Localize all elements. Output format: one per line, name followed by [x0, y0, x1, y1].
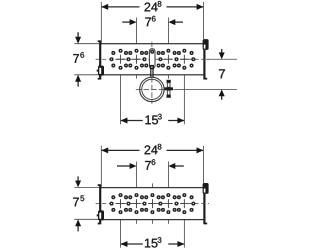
top view: dimension 7.6 arrows — [122, 21, 131, 23]
top view: central slot — [149, 49, 155, 69]
front view: dimension text 24.8 — [145, 145, 158, 154]
top view: left dim 7.6 extension lines — [74, 43, 99, 45]
front view: extension line left edge — [100, 146, 102, 188]
right dim 7: lower extension (clamp centerline) — [174, 88, 238, 90]
left end bar — [99, 184, 101, 224]
right end clip — [203, 183, 209, 194]
front view: extension line col -31.9 — [120, 189, 122, 247]
front view: extension line col -15.95 — [136, 162, 138, 224]
right end bar — [203, 185, 205, 224]
top view: extension line left edge — [100, 2, 102, 44]
left end bar — [99, 40, 101, 79]
centerline dash-dot — [96, 203, 209, 205]
top view: left dim text 7.6 — [73, 54, 79, 63]
plate body outline — [100, 44, 204, 75]
top view: dimension text 24.8 — [145, 3, 158, 12]
diagonal row holes — [112, 52, 115, 55]
slot top hole — [151, 50, 154, 53]
top view: dim 15.3 line — [121, 120, 143, 122]
holes above and below crosses — [119, 194, 122, 197]
top view: dimension 24.8 line — [101, 6, 139, 8]
front view: center column line — [151, 183, 153, 223]
top view: extension line col -31.9 — [120, 45, 122, 124]
right end bar — [203, 41, 205, 79]
vertical centerline through slot and clamp — [151, 42, 153, 47]
front view: dimension text 7.6 — [145, 161, 151, 170]
top view: extension line right edge — [203, 2, 205, 39]
clamp tension bolt: bottom head — [167, 95, 171, 98]
front view: extension line col +31.9 — [183, 189, 185, 247]
clamp tension bolt: upper shaft — [167, 83, 170, 88]
front view: left dim text 7.5 — [73, 198, 79, 207]
front view: left dim 7.5 extension lines — [74, 187, 99, 189]
front view: left dim 7.5 arrows — [77, 176, 79, 181]
right end clip — [203, 39, 209, 50]
plate body outline — [100, 188, 204, 220]
front view: extension line col +15.95 — [167, 162, 169, 224]
top view: dimension text 7.6 — [145, 18, 151, 27]
front view: dimension 24.8 line — [101, 149, 139, 151]
left end clip — [98, 66, 104, 76]
left end clip — [98, 210, 104, 220]
pipe clamp inner ring — [142, 79, 162, 99]
front view: dim text 15.3 — [145, 239, 158, 248]
front view: dimension 7.6 arrows — [117, 165, 131, 167]
top view: extension line col +15.95 — [167, 18, 169, 79]
holes above and below crosses — [119, 49, 122, 52]
diagonal row holes — [112, 196, 115, 199]
slot bottom square nut — [150, 65, 154, 70]
top view: dim text 15.3 — [145, 116, 158, 125]
top view: extension line col -15.95 — [136, 18, 138, 79]
clamp tension bolt: top head — [167, 80, 171, 83]
hole crosses — [116, 55, 125, 64]
right dim 7 arrows — [221, 49, 223, 53]
pipe clamp outer ring — [140, 77, 165, 102]
centerline holes — [110, 202, 113, 205]
right dim 7: upper extension (plate centerline) — [206, 58, 237, 60]
clamp stem bolt — [150, 69, 152, 77]
front view: extension line right edge — [202, 146, 204, 183]
clamp tension bolt: lower shaft — [167, 90, 170, 95]
clamp tension bolt: middle nut — [164, 87, 173, 90]
hole crosses — [116, 199, 125, 208]
clamp horizontal centerline — [136, 88, 168, 90]
right dim text 7 — [219, 69, 225, 78]
top view: left dim 7.6 arrows — [77, 32, 79, 38]
centerline holes — [110, 58, 113, 61]
top view: extension line col +31.9 — [183, 45, 185, 124]
centerline dash-dot — [96, 58, 209, 60]
front view: dim 15.3 line — [121, 243, 143, 245]
